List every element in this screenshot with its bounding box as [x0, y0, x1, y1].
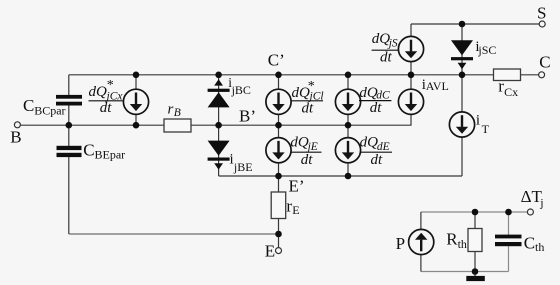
- thermal network: stub to dTj terminal: [509, 211, 528, 213]
- svg-text:dt: dt: [302, 101, 315, 117]
- svg-text:S: S: [537, 4, 546, 23]
- terminal E: [276, 248, 282, 254]
- svg-text:jSC: jSC: [477, 43, 496, 57]
- terminal C: [539, 72, 545, 78]
- wire: B' row rB right to dQdC bottom: [191, 124, 348, 126]
- wire: top C' rail y=74.8: [69, 74, 462, 76]
- node: E' row at dQdE: [345, 173, 352, 180]
- terminal B: [14, 122, 20, 128]
- ground (thermal): [466, 276, 485, 281]
- thermal network: Cth bottom column: [508, 246, 510, 272]
- node: thermal top at Rth: [472, 209, 479, 216]
- node C': [275, 72, 282, 79]
- svg-text:Cx: Cx: [504, 85, 518, 99]
- capacitor CBCpar: [56, 95, 82, 106]
- current source dQjE/dt: [266, 138, 291, 163]
- svg-text:B: B: [10, 127, 21, 146]
- current source dQdE/dt: [335, 138, 360, 163]
- wire: CBEpar column upper: [68, 125, 70, 146]
- thermal network: top rail: [421, 211, 509, 213]
- capacitor CBEpar: [57, 146, 82, 157]
- current source dQjCx/dt: [123, 89, 148, 114]
- diode iJSC (pointing down, arrow below): [451, 40, 473, 69]
- svg-text:T: T: [482, 122, 490, 136]
- current source iT: [449, 112, 474, 137]
- thermal network: Cth column: [508, 212, 510, 235]
- wire: iJSC / iT column: [461, 24, 463, 176]
- svg-text:C: C: [539, 52, 550, 71]
- svg-text:E: E: [292, 203, 299, 217]
- label: capacitor CBCpar: [23, 96, 66, 117]
- resistor Rth: [468, 229, 482, 252]
- svg-text:R: R: [446, 229, 458, 248]
- node E': [275, 173, 282, 180]
- label: fraction dQjE/dt: [290, 134, 321, 168]
- svg-text:i: i: [476, 113, 480, 129]
- resistor rCx: [494, 69, 521, 81]
- wire: dQjCx column: [135, 75, 137, 125]
- thermal network: P source column: [420, 212, 422, 230]
- label: current iAVL: [422, 77, 449, 93]
- wire: CBEpar column down to E bottom wire: [68, 157, 70, 234]
- svg-text:dt: dt: [370, 100, 383, 116]
- wire: iAVL bottom return to B' row: [348, 115, 411, 126]
- svg-text:r: r: [168, 101, 174, 117]
- wire: dQdC/dQdE column: [347, 75, 349, 176]
- svg-text:AVL: AVL: [426, 79, 449, 93]
- wire: E' row: [219, 175, 462, 177]
- svg-text:jS: jS: [387, 37, 398, 49]
- svg-text:C: C: [524, 233, 535, 252]
- svg-text:C: C: [23, 96, 34, 115]
- label: diode current iJBE: [230, 152, 253, 174]
- svg-text:BEpar: BEpar: [95, 148, 126, 162]
- label: resistor Rth: [446, 229, 467, 251]
- svg-text:dt: dt: [301, 152, 314, 168]
- svg-text:th: th: [535, 240, 544, 254]
- resistor rE: [271, 192, 286, 219]
- wire: diode column iJBE: [218, 125, 220, 176]
- svg-text:dt: dt: [371, 152, 384, 168]
- svg-text:th: th: [458, 237, 467, 251]
- terminal S: [539, 21, 545, 27]
- capacitor Cth: [495, 235, 522, 247]
- label: fraction dQdC/dt: [359, 85, 391, 116]
- svg-text:B’: B’: [239, 106, 256, 125]
- current source dQdC/dt: [335, 89, 360, 114]
- diode iJBE (pointing down, arrow below): [208, 141, 230, 170]
- wire: CBCpar column lower: [68, 105, 70, 125]
- label: diode current iJBC: [228, 75, 251, 97]
- node: B' row at dQjCl: [275, 122, 282, 129]
- wire: diode column iJBC: [218, 75, 220, 125]
- thermal network: bottom rail: [421, 271, 509, 273]
- node: B row at dQjCx: [133, 122, 140, 129]
- svg-text:C: C: [83, 141, 94, 160]
- terminal dTj: [527, 209, 533, 215]
- wire: B terminal to rB left: [20, 124, 164, 126]
- node: thermal top at Cth: [505, 209, 512, 216]
- wire: C' column through dQjCl and dQjE: [278, 75, 280, 192]
- svg-text:C’: C’: [268, 50, 285, 69]
- thermal network: Rth column: [474, 212, 476, 229]
- label: terminal dTj: [521, 187, 544, 209]
- svg-text:dt: dt: [380, 49, 393, 65]
- svg-text:dQ: dQ: [360, 134, 379, 150]
- svg-text:jBE: jBE: [233, 160, 253, 174]
- wire: E bottom rail: [69, 233, 279, 235]
- label: current iT: [476, 113, 490, 136]
- node: top rail at dQjCx: [133, 72, 140, 79]
- wire: rE to E node: [278, 219, 280, 248]
- wire: CBCpar column upper: [68, 75, 70, 95]
- svg-text:j: j: [539, 195, 543, 209]
- label: capacitor Cth: [524, 233, 545, 254]
- node: top rail at iJBC: [215, 72, 222, 79]
- label: fraction dQjCl/dt: [291, 79, 324, 117]
- svg-text:jBC: jBC: [231, 83, 251, 97]
- wire: dQjS / iAVL column: [410, 24, 412, 115]
- node: S rail at iJSC: [459, 21, 466, 28]
- current source P (thermal): [409, 229, 434, 254]
- svg-text:dQ: dQ: [89, 84, 108, 100]
- node: E bottom junction: [275, 231, 282, 238]
- thermal network: P source bottom column: [420, 255, 422, 272]
- node: B row at CBCpar: [66, 122, 73, 129]
- wire: rail to rCx and C terminal: [462, 74, 539, 76]
- current source iAVL: [398, 89, 423, 114]
- label: diode current iJSC: [475, 39, 496, 57]
- svg-text:dQ: dQ: [372, 31, 391, 47]
- label: fraction dQjS/dt: [372, 31, 399, 65]
- label: resistor rE: [286, 197, 299, 217]
- svg-text:dQ: dQ: [359, 85, 378, 101]
- current source dQjCl/dt: [266, 89, 291, 114]
- resistor rB: [164, 119, 191, 132]
- wire: S rail from above dQjS to terminal S: [411, 23, 539, 25]
- node: B' row at dQdC: [345, 122, 352, 129]
- node: top rail at iAVL: [408, 72, 415, 79]
- svg-text:ΔT: ΔT: [521, 187, 543, 206]
- svg-text:dQ: dQ: [290, 134, 309, 150]
- current source dQjS/dt: [398, 36, 423, 61]
- svg-text:B: B: [174, 107, 181, 119]
- label: resistor rB: [168, 101, 181, 119]
- node: thermal bottom at Rth: [472, 268, 479, 275]
- diode iJBC (pointing up, arrow above): [208, 79, 230, 107]
- node B': [215, 122, 222, 129]
- node: top rail at iJSC: [459, 72, 466, 79]
- label: fraction dQjCx/dt: [89, 78, 124, 116]
- svg-text:E: E: [265, 242, 275, 261]
- label: resistor rCx: [498, 77, 518, 100]
- node: top rail at dQdC: [345, 72, 352, 79]
- svg-text:BCpar: BCpar: [34, 103, 65, 117]
- thermal network: Rth bottom column: [474, 252, 476, 277]
- svg-text:dt: dt: [100, 100, 113, 116]
- label: fraction dQdE/dt: [360, 134, 392, 168]
- svg-text:E’: E’: [289, 177, 305, 196]
- svg-text:P: P: [396, 234, 405, 253]
- label: capacitor CBEpar: [83, 141, 125, 162]
